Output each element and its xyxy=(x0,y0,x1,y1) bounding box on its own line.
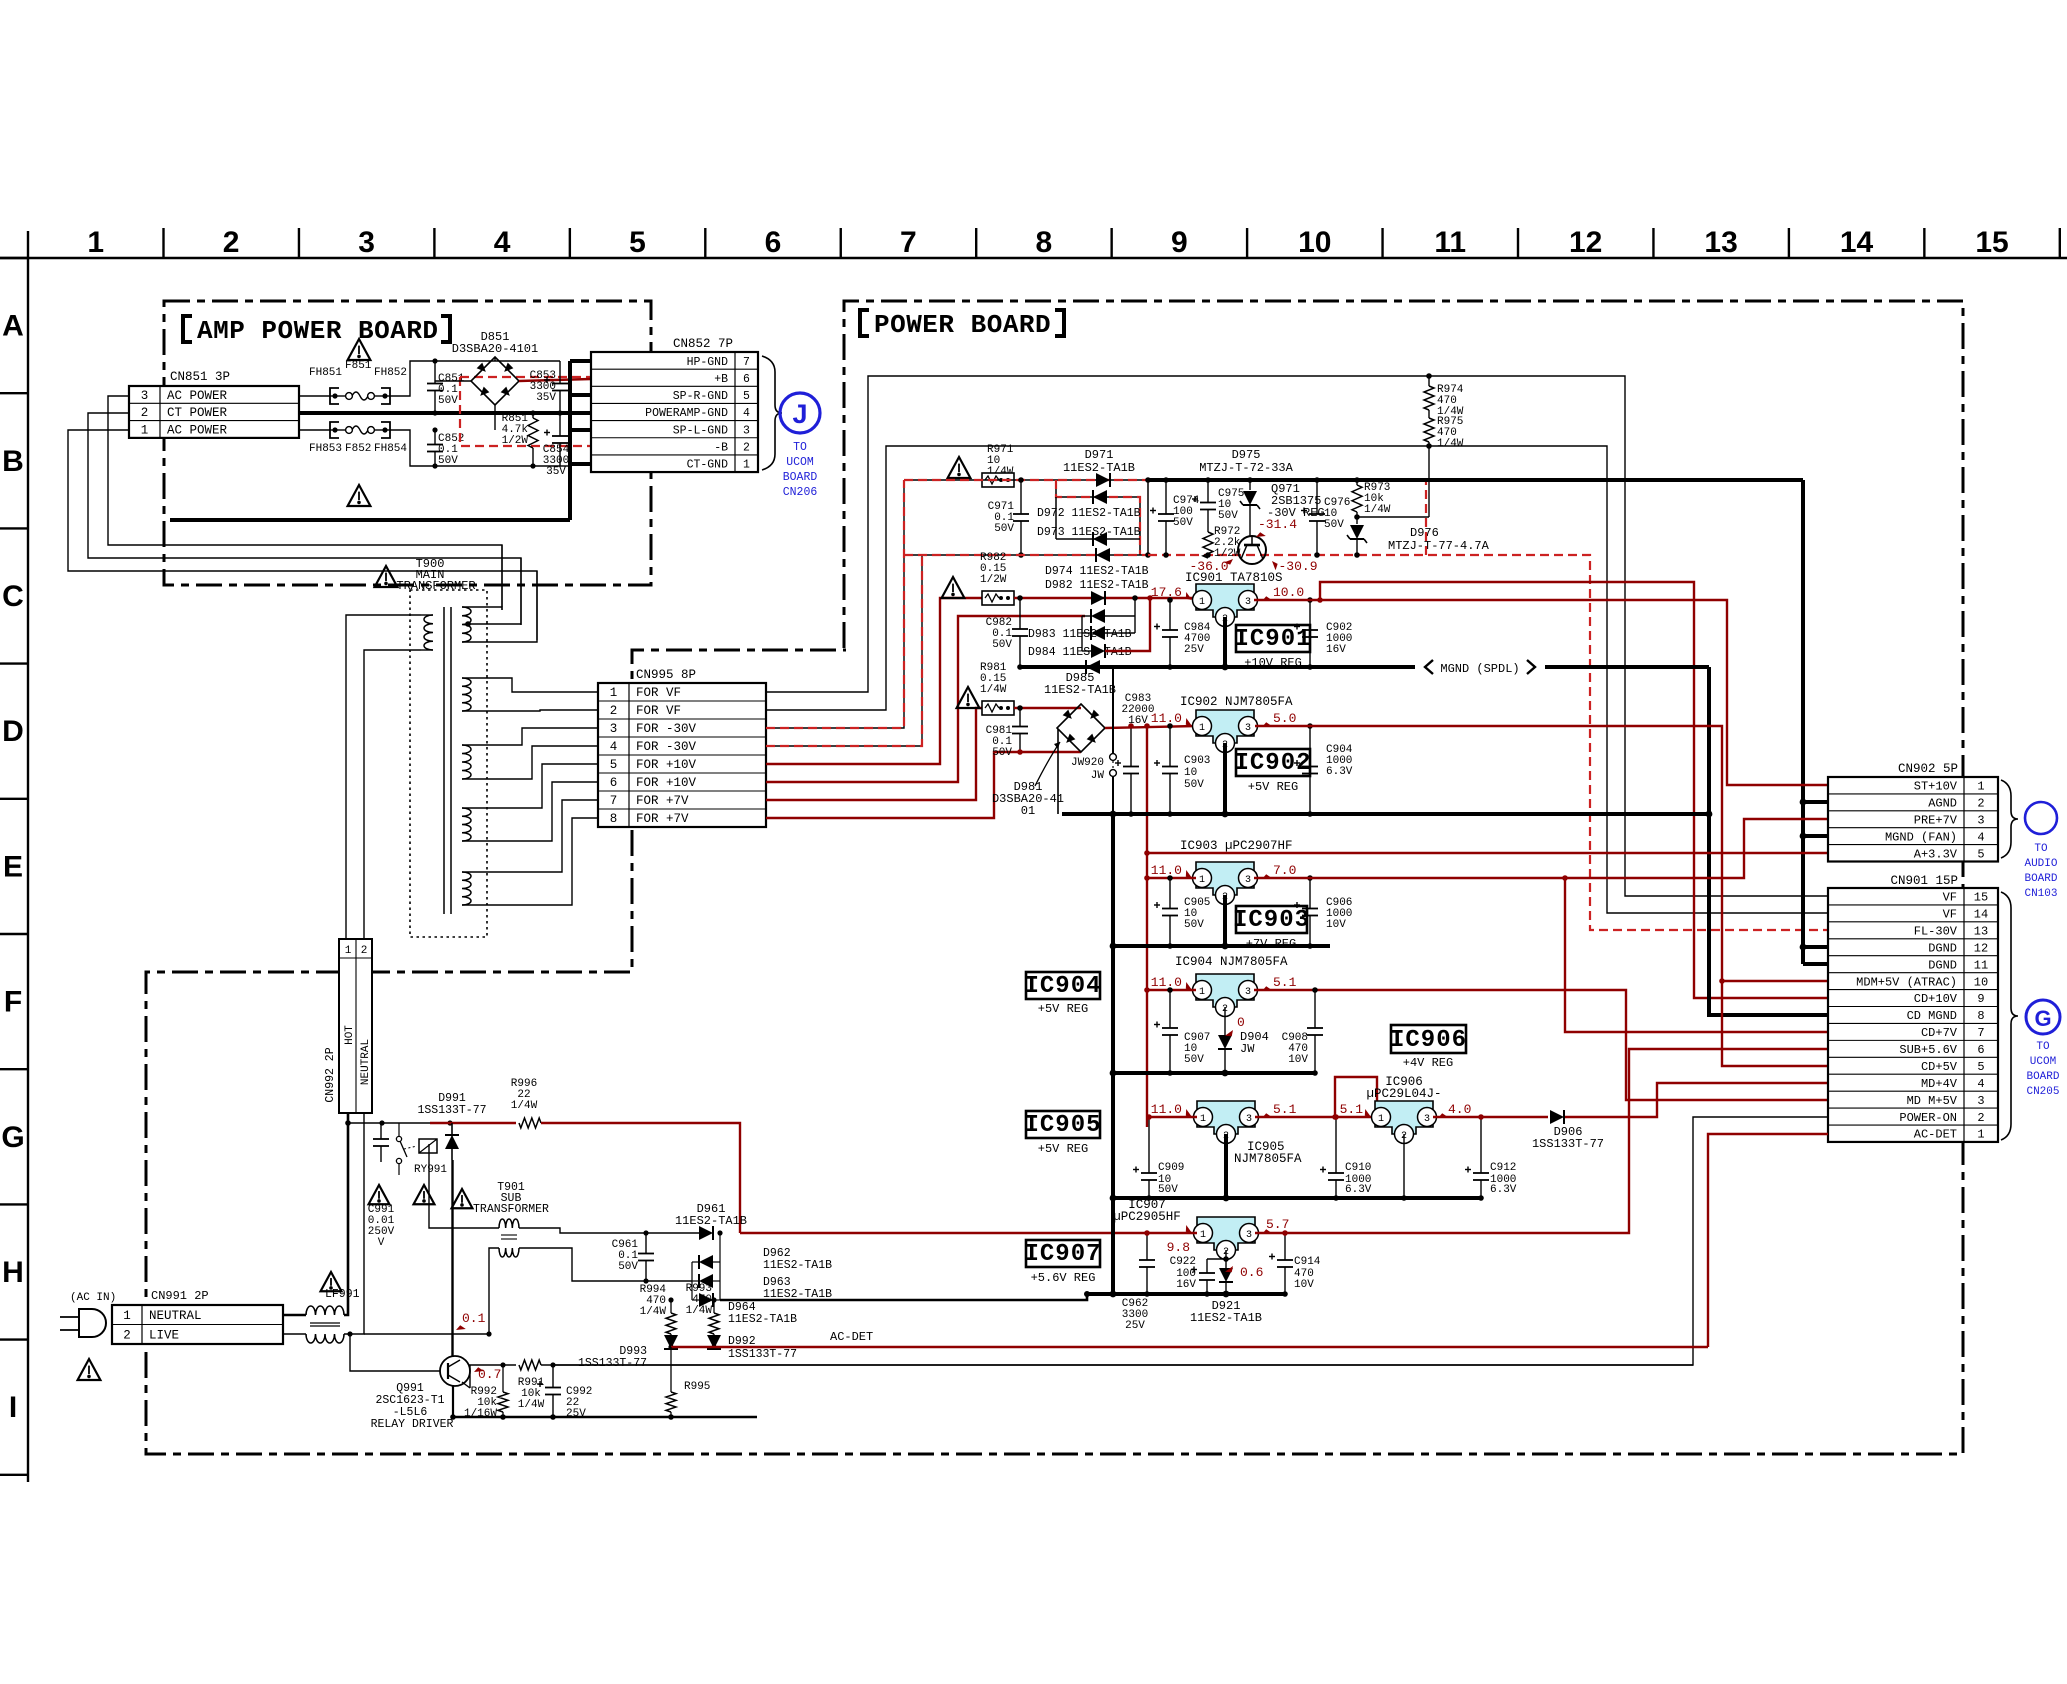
POWER BOARD title xyxy=(860,310,869,336)
svg-text:TO: TO xyxy=(2036,1041,2050,1053)
svg-text:10V: 10V xyxy=(1294,1279,1314,1291)
wire CN851 to fuses xyxy=(299,395,330,397)
svg-text:CN852 7P: CN852 7P xyxy=(673,337,733,351)
svg-text:TO: TO xyxy=(2034,843,2048,855)
svg-text:5: 5 xyxy=(629,226,646,259)
red wire IC903 output xyxy=(1254,819,1828,878)
red wire IC903 input xyxy=(1147,877,1196,879)
svg-text:+5V REG: +5V REG xyxy=(1038,1142,1088,1156)
wire LF991 to CN992 NEUTRAL xyxy=(344,1113,364,1334)
wire Q991 base xyxy=(350,1334,440,1371)
svg-text:C910: C910 xyxy=(1345,1162,1371,1174)
transistor Q971 xyxy=(1238,536,1266,564)
wire T900 primary to CN992 xyxy=(346,615,421,939)
diode D962 xyxy=(699,1255,713,1269)
capacitor C908 xyxy=(1314,990,1316,1028)
wire R973 to R975 xyxy=(1357,516,1429,518)
diode D964 xyxy=(699,1293,713,1307)
svg-text:NJM7805FA: NJM7805FA xyxy=(1234,1152,1302,1166)
capacitor C962 xyxy=(1146,1233,1148,1260)
svg-text:1: 1 xyxy=(1378,1114,1384,1125)
svg-text:SUB+5.6V: SUB+5.6V xyxy=(1899,1043,1957,1057)
diode D906 xyxy=(1550,1110,1564,1124)
svg-text:FOR +7V: FOR +7V xyxy=(636,794,689,808)
warning triangle near LF991 xyxy=(321,1272,342,1291)
wire IC903 pin2 ground xyxy=(1223,895,1227,946)
wire CN851 pin3 loop xyxy=(108,396,502,610)
red wire IC906 output to diode D906 xyxy=(1433,1116,1548,1118)
capacitor C971 xyxy=(1020,480,1022,514)
wire bridge connections xyxy=(435,380,471,382)
diode ladder verticals T901 xyxy=(691,1262,693,1300)
svg-text:CN205: CN205 xyxy=(2026,1086,2059,1098)
resistor R996 xyxy=(519,1118,541,1128)
svg-text:D984 11ES2-TA1B: D984 11ES2-TA1B xyxy=(1028,646,1132,659)
capacitor C992 xyxy=(552,1365,554,1388)
svg-text:5.1: 5.1 xyxy=(1273,975,1297,990)
svg-text:F852: F852 xyxy=(345,443,371,455)
svg-text:10V: 10V xyxy=(1288,1054,1308,1066)
red dashed FOR -30V wire 2 xyxy=(766,555,922,746)
svg-text:10.0: 10.0 xyxy=(1273,585,1304,600)
svg-text:+5V REG: +5V REG xyxy=(1038,1002,1088,1016)
svg-text:2: 2 xyxy=(141,406,149,420)
svg-text:1/2W: 1/2W xyxy=(980,574,1007,586)
svg-text:CN902 5P: CN902 5P xyxy=(1898,762,1958,776)
svg-text:MDM+5V (ATRAC): MDM+5V (ATRAC) xyxy=(1856,975,1957,989)
capacitor C974 xyxy=(1165,480,1167,514)
transformer T901 xyxy=(499,1219,519,1228)
jumper JW920 xyxy=(1110,754,1117,761)
svg-text:1: 1 xyxy=(87,226,104,259)
svg-text:FOR +10V: FOR +10V xyxy=(636,776,697,790)
capacitor C914 xyxy=(1284,1233,1286,1260)
svg-text:IC901: IC901 xyxy=(1234,626,1311,653)
svg-text:35V: 35V xyxy=(546,466,566,478)
wire bottom rail to connector xyxy=(560,465,570,467)
relay coil RY991 xyxy=(419,1139,437,1153)
red wire FOR +7V row8 xyxy=(766,752,1081,818)
svg-text:8: 8 xyxy=(610,812,618,826)
diode D971 xyxy=(1096,473,1110,487)
wires CN991 to LF991 xyxy=(283,1314,306,1317)
svg-text:AC POWER: AC POWER xyxy=(167,389,228,403)
svg-text:14: 14 xyxy=(1840,226,1874,259)
svg-text:10: 10 xyxy=(1184,767,1197,779)
connector CN992 2P xyxy=(339,939,372,1113)
svg-text:DGND: DGND xyxy=(1928,958,1957,972)
svg-text:17.6: 17.6 xyxy=(1151,585,1182,600)
capacitor C854 xyxy=(559,413,561,436)
svg-text:7: 7 xyxy=(743,356,750,369)
svg-text:V: V xyxy=(378,1237,385,1249)
ruler row ticks and letters xyxy=(0,257,28,259)
svg-text:D982 11ES2-TA1B: D982 11ES2-TA1B xyxy=(1045,579,1149,592)
svg-text:3: 3 xyxy=(1424,1114,1430,1125)
svg-text:2: 2 xyxy=(123,1328,131,1342)
thick ground stubs to CN852 xyxy=(568,361,572,466)
ground bus under IC903 xyxy=(1113,944,1330,948)
svg-text:CN995 8P: CN995 8P xyxy=(636,668,696,682)
svg-text:11ES2-TA1B: 11ES2-TA1B xyxy=(675,1214,747,1228)
svg-text:2: 2 xyxy=(1977,1111,1984,1125)
svg-text:LF991: LF991 xyxy=(325,1288,360,1301)
fuse F852 xyxy=(330,422,339,438)
svg-text:5: 5 xyxy=(1977,847,1984,861)
red dashed step xyxy=(1056,480,1140,555)
svg-text:1: 1 xyxy=(345,945,352,957)
svg-text:3: 3 xyxy=(1245,987,1251,998)
svg-text:11.0: 11.0 xyxy=(1151,711,1182,726)
svg-text:16V: 16V xyxy=(1128,715,1148,727)
svg-text:9: 9 xyxy=(1977,992,1984,1006)
svg-text:FH851: FH851 xyxy=(309,367,342,379)
svg-text:IC907: IC907 xyxy=(1024,1241,1101,1268)
IC902 bold label box xyxy=(1236,749,1310,776)
svg-text:50V: 50V xyxy=(438,395,458,407)
svg-text:11.0: 11.0 xyxy=(1151,863,1182,878)
transistor Q991 xyxy=(440,1356,470,1386)
svg-text:1/2W: 1/2W xyxy=(502,435,529,447)
svg-text:15: 15 xyxy=(1975,226,2008,259)
svg-text:11ES2-TA1B: 11ES2-TA1B xyxy=(1044,683,1116,697)
capacitor C991 xyxy=(380,1123,382,1139)
svg-text:POWER-ON: POWER-ON xyxy=(1899,1111,1957,1125)
capacitor C922 xyxy=(1225,1250,1227,1259)
wire T901 primary return xyxy=(489,1248,499,1334)
svg-text:POWERAMP-GND: POWERAMP-GND xyxy=(645,407,728,420)
svg-text:MD+4V: MD+4V xyxy=(1921,1077,1958,1091)
svg-text:FOR -30V: FOR -30V xyxy=(636,740,697,754)
svg-text:CN851 3P: CN851 3P xyxy=(170,370,230,384)
svg-text:1/4W: 1/4W xyxy=(686,1305,713,1317)
svg-text:50V: 50V xyxy=(1184,1054,1204,1066)
red -30V output dashed to FL-30V xyxy=(1148,555,1828,930)
svg-text:1: 1 xyxy=(1200,1114,1206,1125)
red wire IC905 to IC906 xyxy=(1255,1116,1382,1118)
svg-text:D974 11ES2-TA1B: D974 11ES2-TA1B xyxy=(1045,565,1149,578)
T900 top secondary coil xyxy=(462,607,471,642)
svg-text:15: 15 xyxy=(1974,891,1988,905)
resistor R992 xyxy=(500,1362,505,1367)
power board right border through connectors xyxy=(1963,301,1965,777)
resistor R973 xyxy=(1356,480,1358,485)
svg-text:MGND (SPDL): MGND (SPDL) xyxy=(1440,662,1519,676)
wire VF loop 2 xyxy=(766,446,1828,913)
svg-text:10: 10 xyxy=(1974,975,1988,989)
svg-text:10: 10 xyxy=(1298,226,1331,259)
svg-text:IC901 TA7810S: IC901 TA7810S xyxy=(1185,571,1283,585)
IC901 bold label box xyxy=(1236,625,1310,652)
diode D984 xyxy=(1091,644,1105,658)
IC903 bold label box xyxy=(1236,906,1307,933)
svg-text:11ES2-TA1B: 11ES2-TA1B xyxy=(763,1259,832,1272)
svg-text:8: 8 xyxy=(1036,226,1053,259)
red wire R996 to D961 node xyxy=(541,1123,740,1233)
svg-text:4: 4 xyxy=(494,226,511,259)
capacitor C982 xyxy=(1019,598,1021,629)
svg-text:+4V REG: +4V REG xyxy=(1403,1056,1453,1070)
red wire IC901 output xyxy=(1254,599,1320,601)
red branch CD+7V xyxy=(1562,875,1568,881)
red wire IC907 input long xyxy=(740,1232,1197,1234)
transformer T900 dotted box xyxy=(410,590,487,937)
wires T900 top secondary to AMP loops xyxy=(462,607,502,610)
T900 primary coil xyxy=(424,615,433,650)
svg-text:13: 13 xyxy=(1974,925,1988,939)
resistor R991 xyxy=(519,1360,541,1370)
svg-text:50V: 50V xyxy=(1158,1184,1178,1196)
svg-text:50V: 50V xyxy=(994,523,1014,535)
svg-text:8: 8 xyxy=(1977,1009,1984,1023)
svg-text:1SS133T-77: 1SS133T-77 xyxy=(417,1104,486,1117)
svg-text:50V: 50V xyxy=(438,455,458,467)
svg-text:IC906: IC906 xyxy=(1390,1027,1467,1054)
dark red link D984 to input xyxy=(1105,598,1150,651)
svg-text:µPC29L04J-: µPC29L04J- xyxy=(1366,1087,1441,1101)
wire IC902 pin2 ground xyxy=(1223,743,1227,814)
svg-text:9: 9 xyxy=(1171,226,1188,259)
svg-text:1: 1 xyxy=(1977,780,1984,794)
svg-text:G: G xyxy=(2034,1006,2051,1031)
svg-text:F: F xyxy=(4,986,22,1019)
warning triangle R981 xyxy=(957,687,980,708)
warning triangle R982 xyxy=(942,577,965,598)
capacitor C976 xyxy=(1316,480,1318,514)
IC905 bold label box xyxy=(1026,1111,1100,1138)
svg-text:UCOM: UCOM xyxy=(2030,1056,2056,1068)
transformer T900 core xyxy=(443,607,445,914)
svg-text:6: 6 xyxy=(765,226,782,259)
svg-text:AC-DET: AC-DET xyxy=(1914,1128,1957,1142)
svg-text:D972 11ES2-TA1B: D972 11ES2-TA1B xyxy=(1037,507,1141,520)
svg-text:CN901 15P: CN901 15P xyxy=(1890,874,1958,888)
wire Q991 collector xyxy=(451,1123,453,1356)
red wire IC904 output xyxy=(1254,990,1828,1100)
AGND bus under IC902 xyxy=(1062,812,1709,816)
junction G circle to UCOM xyxy=(2026,1000,2060,1034)
svg-text:D973 11ES2-TA1B: D973 11ES2-TA1B xyxy=(1037,526,1141,539)
warning triangle below AC plug xyxy=(78,1359,101,1380)
svg-text:BOARD: BOARD xyxy=(2026,1071,2059,1083)
svg-text:C903: C903 xyxy=(1184,755,1210,767)
wire -30V bottom rail xyxy=(904,554,1148,556)
capacitor C983 xyxy=(1130,726,1132,767)
svg-text:VF: VF xyxy=(1943,891,1957,905)
capacitor C912 xyxy=(1480,1155,1482,1173)
red wire IC907 output to SUB+5.6V xyxy=(1255,1049,1828,1233)
svg-text:3: 3 xyxy=(1245,723,1251,734)
resistor R995 xyxy=(670,1347,672,1392)
svg-text:12: 12 xyxy=(1569,226,1602,259)
svg-text:FH853: FH853 xyxy=(309,443,342,455)
svg-text:VF: VF xyxy=(1943,908,1957,922)
svg-text:LIVE: LIVE xyxy=(149,1328,179,1342)
svg-text:11: 11 xyxy=(1974,958,1988,972)
wire POWER-ON from R991 xyxy=(541,1364,1693,1366)
svg-text:CD+10V: CD+10V xyxy=(1914,992,1958,1006)
svg-text:6.3V: 6.3V xyxy=(1345,1184,1372,1196)
svg-text:UCOM: UCOM xyxy=(786,456,814,469)
red wire bridge to IC902 pin1 xyxy=(1105,726,1196,728)
wire diode output to ground bus xyxy=(720,1294,1087,1300)
svg-text:+5.6V REG: +5.6V REG xyxy=(1031,1271,1096,1285)
red wire bridge output to +B xyxy=(519,379,591,381)
ground bus under IC907 xyxy=(1087,1292,1285,1296)
bottom ground rail relay block xyxy=(453,1416,757,1419)
svg-text:3: 3 xyxy=(141,389,149,403)
T900 secondary coil g2 xyxy=(462,678,471,711)
svg-text:F851: F851 xyxy=(345,360,372,372)
diode D961 xyxy=(699,1226,713,1240)
svg-text:11ES2-TA1B: 11ES2-TA1B xyxy=(728,1313,797,1326)
brace CN902 xyxy=(2001,780,2018,858)
ground bus under IC904 xyxy=(1113,1071,1315,1075)
svg-text:0.6: 0.6 xyxy=(1240,1265,1263,1280)
wire CN851 pin2 loop xyxy=(88,413,521,625)
zener D975 xyxy=(1249,480,1251,490)
svg-text:POWER BOARD: POWER BOARD xyxy=(874,310,1051,340)
svg-text:35V: 35V xyxy=(536,392,556,404)
svg-text:11ES2-TA1B: 11ES2-TA1B xyxy=(1190,1311,1262,1325)
red wire R982 to IC901 pin1 xyxy=(1014,597,1196,599)
svg-text:5.1: 5.1 xyxy=(1273,1102,1297,1117)
svg-text:NEUTRAL: NEUTRAL xyxy=(149,1309,202,1323)
svg-text:11: 11 xyxy=(1434,226,1466,259)
svg-text:7: 7 xyxy=(1977,1026,1984,1040)
svg-text:50V: 50V xyxy=(1184,779,1204,791)
svg-text:PRE+7V: PRE+7V xyxy=(1914,813,1958,827)
capacitor C852 xyxy=(434,430,436,445)
warning triangle T900 xyxy=(375,566,398,587)
AMP POWER BOARD title xyxy=(183,316,192,342)
svg-text:H: H xyxy=(2,1256,24,1289)
svg-text:G: G xyxy=(1,1121,24,1154)
svg-text:C922: C922 xyxy=(1170,1256,1196,1268)
svg-text:FH854: FH854 xyxy=(374,443,407,455)
fuse F851 xyxy=(330,388,339,404)
ground spine vertical xyxy=(1112,667,1114,753)
AC plug symbol xyxy=(79,1309,106,1337)
svg-text:6: 6 xyxy=(1977,1043,1984,1057)
svg-text:1: 1 xyxy=(1199,875,1205,886)
svg-text:D976: D976 xyxy=(1410,526,1439,540)
wire IC906 pin2 ground xyxy=(1403,1134,1405,1198)
resistor R974 R975 chain xyxy=(1428,376,1430,386)
svg-text:AGND: AGND xyxy=(1928,797,1957,811)
svg-text:A+3.3V: A+3.3V xyxy=(1914,847,1958,861)
svg-text:50V: 50V xyxy=(618,1261,638,1273)
red wire D906 to MD+4V xyxy=(1565,1083,1828,1117)
svg-text:4: 4 xyxy=(1977,830,1984,844)
svg-text:1SS133T-77: 1SS133T-77 xyxy=(1532,1137,1604,1151)
svg-text:3: 3 xyxy=(1977,813,1984,827)
svg-text:D: D xyxy=(2,715,24,748)
red feed vertical rail xyxy=(1146,726,1148,1127)
capacitor C905 xyxy=(1169,878,1171,909)
warning triangles relay xyxy=(369,1185,390,1204)
wire T901 secondary bottom xyxy=(519,1248,692,1281)
svg-text:2: 2 xyxy=(610,704,618,718)
svg-text:50V: 50V xyxy=(1218,510,1238,522)
svg-text:2: 2 xyxy=(223,226,240,259)
red dashed bridge box xyxy=(460,376,591,378)
svg-text:1: 1 xyxy=(1977,1128,1984,1142)
svg-text:(AC IN): (AC IN) xyxy=(70,1292,116,1304)
capacitor C984 xyxy=(1169,600,1171,630)
warning triangle below F852 xyxy=(348,485,371,506)
svg-text:6.3V: 6.3V xyxy=(1326,766,1353,778)
svg-text:HOT: HOT xyxy=(344,1025,356,1045)
relay branch wire xyxy=(348,1122,430,1124)
wires g3 to CN995 rows 3-4 xyxy=(462,728,598,745)
T900 secondary coil g5 xyxy=(462,872,471,905)
wires g4 to CN995 rows 5-6 xyxy=(462,764,598,808)
svg-text:J: J xyxy=(792,399,807,429)
warning triangle R971 xyxy=(948,457,971,478)
diode D904 JW xyxy=(1224,1007,1226,1035)
ruler column ticks and numbers xyxy=(162,228,164,258)
IC907 bold label box xyxy=(1026,1240,1100,1267)
svg-text:3: 3 xyxy=(610,722,618,736)
brace CN901 xyxy=(2001,892,2018,1140)
diode D973 xyxy=(1056,538,1140,540)
red wire A+3.3V xyxy=(1144,850,1150,856)
svg-text:+B: +B xyxy=(714,373,728,386)
diode D993 xyxy=(670,1334,672,1336)
svg-text:ST+10V: ST+10V xyxy=(1914,780,1958,794)
svg-text:3: 3 xyxy=(1246,1114,1252,1125)
svg-text:11.0: 11.0 xyxy=(1151,975,1182,990)
svg-text:7: 7 xyxy=(900,226,917,259)
svg-text:JW: JW xyxy=(1240,1042,1255,1056)
svg-text:FOR VF: FOR VF xyxy=(636,704,681,718)
svg-text:10V: 10V xyxy=(1326,919,1346,931)
diode D991 xyxy=(451,1123,453,1136)
svg-text:JW: JW xyxy=(1091,770,1105,782)
warning triangle T901 xyxy=(452,1189,473,1208)
svg-text:IC904: IC904 xyxy=(1024,973,1101,1000)
svg-text:50V: 50V xyxy=(992,639,1012,651)
svg-text:C914: C914 xyxy=(1294,1256,1321,1268)
svg-text:1: 1 xyxy=(610,686,618,700)
capacitor C904 xyxy=(1309,726,1311,767)
diode ladder verticals xyxy=(1081,616,1083,651)
capacitor C981 xyxy=(1019,708,1021,727)
relay switch S991 xyxy=(398,1123,400,1136)
svg-text:1: 1 xyxy=(123,1309,131,1323)
red wire R981 to bridge xyxy=(1014,707,1081,709)
svg-text:12: 12 xyxy=(1974,941,1988,955)
diode D983 xyxy=(1091,626,1105,640)
wire T901 secondary top xyxy=(519,1228,646,1233)
diode D974 xyxy=(1091,591,1105,605)
capacitor C975 xyxy=(1207,480,1209,503)
wire -30V top rail xyxy=(904,479,1148,481)
svg-text:TRANSFORMER: TRANSFORMER xyxy=(396,579,475,593)
svg-text:+5V REG: +5V REG xyxy=(1248,780,1298,794)
svg-text:CN992 2P: CN992 2P xyxy=(324,1047,337,1102)
svg-text:HP-GND: HP-GND xyxy=(687,356,729,369)
diode D985 xyxy=(1086,660,1100,674)
svg-text:5: 5 xyxy=(743,390,750,403)
red stub MDM+5V xyxy=(1719,978,1725,984)
svg-text:MTZJ-T-72-33A: MTZJ-T-72-33A xyxy=(1199,461,1293,475)
svg-text:3: 3 xyxy=(1977,1094,1984,1108)
bridge rectifier D851 xyxy=(471,357,519,405)
svg-text:25V: 25V xyxy=(1184,644,1204,656)
capacitor C961 xyxy=(645,1233,647,1254)
